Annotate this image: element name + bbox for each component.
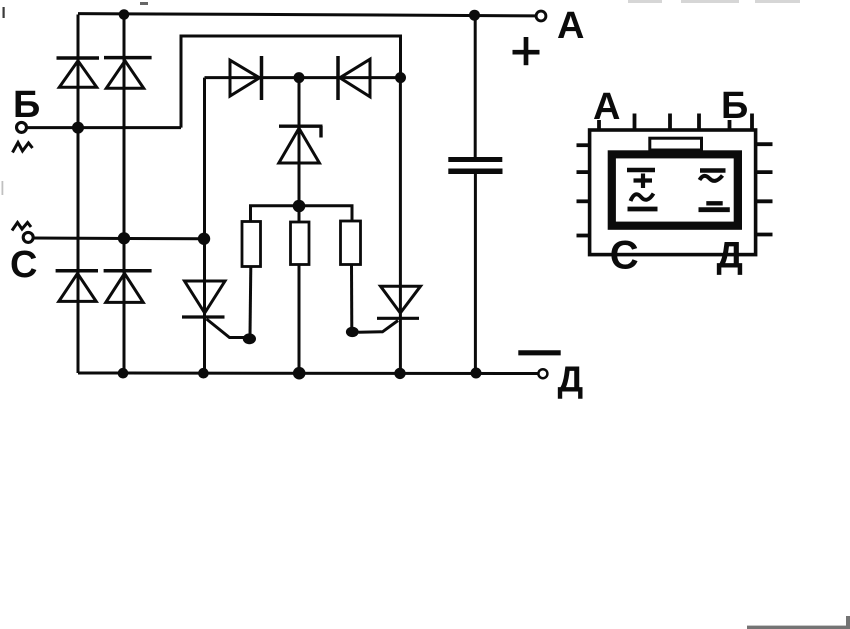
- window symbols left group: bar: [627, 168, 655, 173]
- diode VD3 (lower left): [56, 271, 98, 302]
- node: bottom rail / VS1: [198, 368, 209, 379]
- scan artifact: bottom-right gray block: [846, 616, 850, 629]
- svg-text:А: А: [557, 5, 584, 47]
- resistor R2: [291, 222, 310, 265]
- diode VD5 (series, pointing right): [230, 56, 262, 100]
- wire: top positive rail: [78, 14, 537, 16]
- node: VS2 gate: [346, 327, 359, 337]
- diode VD4 (lower right of pair): [104, 271, 152, 303]
- window symbols right group: bottom bar: [699, 207, 730, 212]
- wire: right vertical through thyristor VS2: [399, 78, 402, 373]
- svg-text:Б: Б: [721, 85, 748, 127]
- node: bottom rail / VS2: [394, 368, 405, 379]
- node: diode row right: [395, 72, 406, 83]
- node: bottom rail / arm2: [118, 368, 129, 379]
- wire: resistor top bus: [251, 206, 353, 222]
- terminal D circle: [538, 369, 547, 378]
- diode VD6 (series, pointing left): [338, 56, 370, 100]
- node: resistor bus: [293, 200, 306, 213]
- wire: R2 top lead: [298, 206, 301, 223]
- wire: bridge arm 1 vertical: [77, 15, 80, 374]
- window symbols right group: short minus: [706, 201, 722, 205]
- svg-text:А: А: [593, 86, 620, 128]
- window symbols right group: bar: [700, 168, 726, 173]
- resistor R3: [341, 221, 361, 265]
- wire: zener branch vertical: [298, 78, 301, 206]
- wire: left drop from diode row through thyristor VS1: [203, 78, 206, 373]
- terminal B circle: [17, 122, 27, 132]
- svg-text:Д: Д: [558, 359, 584, 400]
- node: top rail / arm2: [119, 9, 130, 20]
- scan artifact: top speck: [140, 2, 148, 5]
- window symbols left group: plus: [634, 174, 653, 189]
- scan artifact: top-left dash: [3, 7, 5, 18]
- terminal C circle: [23, 232, 33, 242]
- package pins: top: [599, 114, 752, 131]
- wire: bottom negative rail: [78, 372, 539, 376]
- AC squiggle at B: [13, 143, 33, 153]
- wire: diode row horizontal: [205, 76, 401, 79]
- node: top rail / capacitor: [469, 10, 480, 21]
- wire: phase C horizontal: [32, 237, 204, 241]
- scan artifact: top faint smudge 2: [681, 0, 739, 3]
- thyristor VS1: [182, 281, 246, 338]
- node: VS1 gate: [243, 333, 256, 344]
- svg-text:С: С: [610, 234, 639, 278]
- AC squiggle at C: [12, 223, 31, 231]
- node: bottom rail / R2: [293, 367, 306, 380]
- wire: R2 bottom to negative rail: [298, 265, 301, 374]
- node: bottom rail / capacitor: [471, 368, 482, 379]
- svg-text:Б: Б: [13, 84, 40, 126]
- wire: R3 bottom lead: [350, 265, 353, 329]
- scan artifact: top faint smudge 1: [628, 0, 662, 3]
- wire: capacitor branch vertical: [474, 15, 477, 158]
- scan artifact: left faint dash: [2, 181, 4, 195]
- capacitor C1: [448, 157, 502, 174]
- node: C phase / left drop: [198, 233, 210, 245]
- resistor R1: [242, 222, 261, 267]
- wire: bridge arm 2 vertical: [123, 15, 126, 374]
- node: diode row center: [294, 72, 305, 83]
- scan artifact: bottom-right gray bar: [747, 626, 850, 629]
- diode VD2 (upper right of pair): [104, 58, 152, 89]
- svg-text:Д: Д: [717, 235, 743, 276]
- window symbols left group: bottom bar: [628, 207, 658, 212]
- window symbols right group: sine: [700, 176, 723, 181]
- wire: phase B horizontal: [25, 126, 181, 129]
- plus sign: [513, 37, 540, 65]
- minus sign: [518, 350, 560, 355]
- thyristor VS2: [359, 286, 421, 332]
- zener diode VD7: [279, 126, 323, 163]
- wire: capacitor bottom lead: [474, 174, 477, 374]
- wire: R1 bottom lead: [249, 267, 253, 337]
- node: B phase / arm1: [72, 122, 84, 134]
- package pins: left: [577, 145, 590, 235]
- diode VD1 (upper left): [57, 58, 100, 87]
- package outer body: [590, 130, 756, 255]
- package key notch: [650, 138, 702, 150]
- node: C phase / arm2: [118, 232, 130, 244]
- wire: riser from B row to diode row right end: [181, 36, 401, 128]
- scan artifact: top faint smudge 3: [755, 0, 800, 3]
- terminal A circle: [536, 11, 546, 21]
- package pins: right: [756, 144, 773, 234]
- package window frame: [608, 150, 742, 230]
- window symbols left group: sine: [631, 194, 654, 202]
- svg-text:С: С: [10, 244, 37, 286]
